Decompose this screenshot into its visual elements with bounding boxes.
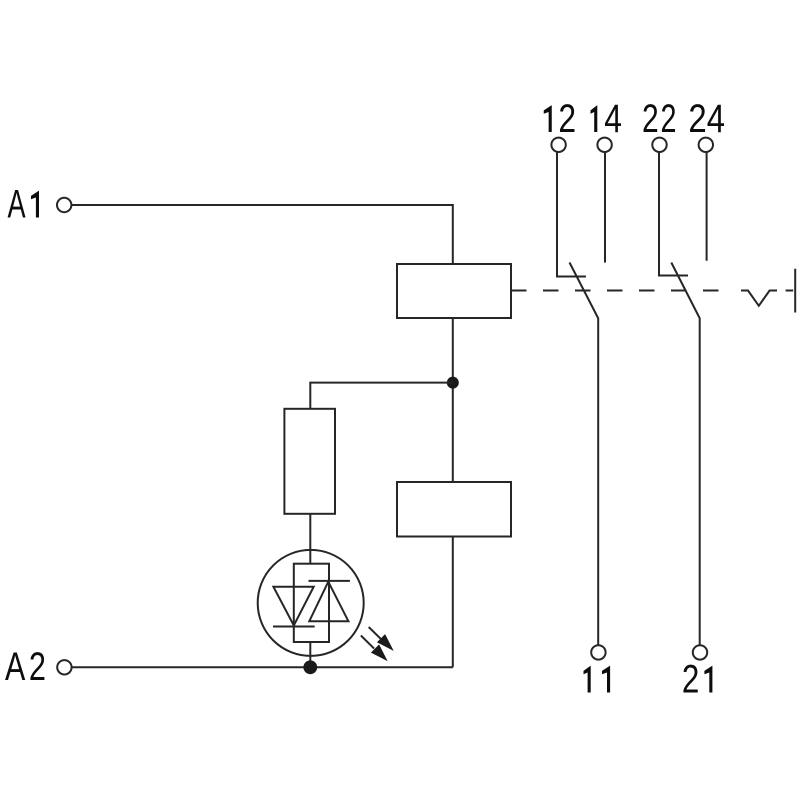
LED light arrow 2 <box>361 636 388 662</box>
wire terminal 22 to contact <box>659 153 688 276</box>
contact blade 11-12/14 <box>570 263 599 646</box>
freewheel block <box>397 482 511 537</box>
wire A2 rail <box>72 666 453 668</box>
junction node coil branch <box>447 377 459 389</box>
diode D1 cathode bar <box>273 626 315 628</box>
terminal label 24 <box>688 96 725 141</box>
terminal label A2 <box>5 645 46 689</box>
terminal 22 <box>652 138 666 152</box>
terminal 11 <box>591 645 605 659</box>
svg-text:2: 2 <box>642 97 659 141</box>
terminal label 11 <box>584 666 611 693</box>
svg-text:A: A <box>5 645 26 689</box>
terminal 24 <box>699 138 713 152</box>
svg-text:2: 2 <box>660 98 676 141</box>
svg-text:4: 4 <box>707 96 725 141</box>
terminal A2 <box>57 660 71 674</box>
wire coil to A2 rail <box>452 318 454 667</box>
terminal label A1 <box>7 183 39 227</box>
terminal label 12 <box>544 97 576 141</box>
svg-text:2: 2 <box>682 657 699 701</box>
manual actuator symbol <box>741 269 795 313</box>
relay coil K1 <box>397 264 511 318</box>
svg-text:2: 2 <box>558 97 576 141</box>
wire A1 to coil <box>72 205 453 264</box>
contact blade 21-22/24 <box>671 263 699 646</box>
LED indicator circle <box>258 550 364 656</box>
wire resistor to LED <box>309 514 311 564</box>
terminal label 21 <box>682 657 712 701</box>
wire terminal 12 to contact <box>557 153 586 277</box>
diode D1 (down) <box>273 587 313 626</box>
svg-text:4: 4 <box>604 97 622 141</box>
varistor block inside LED <box>294 564 329 642</box>
svg-text:A: A <box>7 183 25 227</box>
svg-text:2: 2 <box>29 645 46 689</box>
terminal 21 <box>693 645 707 659</box>
wire LED to A2 rail <box>309 642 311 667</box>
terminal label 14 <box>591 97 622 141</box>
diode D2 (up) <box>309 582 348 622</box>
terminal A1 <box>57 198 71 212</box>
terminal label 22 <box>642 97 676 141</box>
terminal 12 <box>551 138 565 152</box>
wire branch to resistor <box>310 383 453 409</box>
mechanical linkage (dashed) <box>511 290 719 292</box>
junction node A2/LED <box>303 660 317 674</box>
svg-text:2: 2 <box>688 96 706 141</box>
terminal 14 <box>597 138 611 152</box>
resistor R1 <box>284 409 335 514</box>
wire terminal 14 to contact <box>604 153 606 263</box>
diode D2 cathode bar <box>309 580 350 582</box>
wire terminal 24 to contact <box>706 153 708 261</box>
LED light arrow 1 <box>369 627 394 651</box>
